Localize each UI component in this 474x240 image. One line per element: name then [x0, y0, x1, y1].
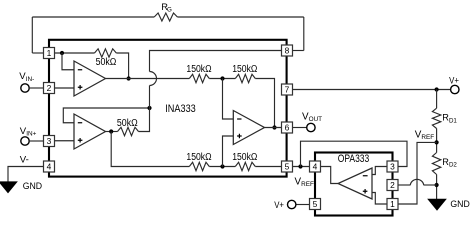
- terminal VIN-: [21, 84, 29, 92]
- node A3 minus junction: [220, 76, 224, 80]
- resistor RD1: [432, 108, 440, 128]
- wire RG loop right vertical: [303, 17, 305, 51]
- wire OPA pin2 to gnd-a: [398, 184, 411, 186]
- svg-text:RD2: RD2: [442, 157, 457, 169]
- svg-text:INA333: INA333: [165, 103, 196, 115]
- pin 3 INA333: [44, 136, 55, 147]
- svg-text:50kΩ: 50kΩ: [117, 118, 138, 129]
- resistor RD2: [432, 153, 440, 175]
- wire top row mid: [209, 78, 235, 80]
- svg-text:3: 3: [390, 161, 395, 171]
- svg-text:7: 7: [285, 84, 290, 94]
- wire pin2 to A1 plus: [55, 87, 75, 89]
- wire bottom row mid: [209, 166, 235, 168]
- svg-text:RD1: RD1: [442, 113, 457, 125]
- wire pin8 internal: [150, 51, 282, 72]
- pin 2 INA333: [44, 83, 55, 94]
- svg-text:G: G: [167, 6, 172, 13]
- pin 6 INA333: [282, 122, 293, 133]
- resistor 150k bottom-2: [235, 162, 255, 170]
- wire 50k A1 to output: [116, 53, 128, 79]
- op-amp A1: [74, 61, 106, 96]
- svg-text:50kΩ: 50kΩ: [96, 57, 117, 68]
- wire RD2 to gnd node: [436, 175, 438, 200]
- terminal VOUT: [307, 123, 315, 131]
- svg-text:VIN+: VIN+: [20, 126, 37, 138]
- svg-text:3: 3: [47, 136, 52, 146]
- wire pin8 lead: [293, 50, 304, 52]
- node V+ rail tap: [435, 87, 439, 91]
- wire top feedback corner: [255, 79, 274, 128]
- wire OPA pin1 internal: [372, 193, 387, 205]
- INA333 package outline: [49, 40, 287, 177]
- wire OPA pin1 to divider: [398, 142, 437, 204]
- svg-text:V+: V+: [274, 200, 284, 211]
- wire hop over A1 row: [150, 72, 157, 86]
- wire pin5 to OPA out: [293, 166, 310, 168]
- svg-text:4: 4: [313, 161, 318, 171]
- svg-text:150kΩ: 150kΩ: [186, 64, 211, 75]
- pin 7 INA333: [282, 84, 293, 95]
- wire hop over pin1 wire: [410, 179, 424, 185]
- pin 4 INA333: [44, 161, 55, 172]
- svg-text:V+: V+: [449, 76, 459, 87]
- node A1 minus junction: [60, 51, 64, 55]
- pin 2 OPA333: [387, 180, 398, 191]
- wire RD1 to node: [436, 129, 438, 153]
- node A1 output: [127, 76, 131, 80]
- svg-text:150kΩ: 150kΩ: [232, 152, 257, 163]
- pin 3 OPA333: [387, 161, 398, 172]
- svg-text:150kΩ: 150kΩ: [186, 152, 211, 163]
- wire RG loop left vertical: [31, 17, 33, 53]
- resistor 150k top-1: [189, 74, 209, 82]
- wire A1 output row: [106, 78, 190, 80]
- op-amp A3: [233, 111, 264, 145]
- wire OPA pin2 to gnd-b: [424, 184, 437, 186]
- terminal V+: [451, 85, 459, 93]
- resistor RG: [154, 13, 177, 21]
- svg-text:VIN-: VIN-: [19, 71, 34, 83]
- pin 4 OPA333: [310, 161, 321, 172]
- terminal VIN+: [21, 137, 29, 145]
- ground right: [428, 199, 446, 210]
- wire A2 minus loop: [63, 108, 149, 123]
- svg-text:2: 2: [390, 180, 395, 190]
- svg-text:VREF: VREF: [295, 176, 314, 188]
- resistor 50k A2: [118, 127, 139, 135]
- pin 8 INA333: [282, 45, 293, 56]
- pin 1 INA333: [44, 48, 55, 59]
- svg-text:150kΩ: 150kΩ: [232, 64, 257, 75]
- wire OPA pin4 to tip: [321, 167, 339, 184]
- svg-text:4: 4: [47, 161, 52, 171]
- wire VIN- to pin2: [29, 87, 43, 89]
- resistor 150k bottom-1: [189, 162, 209, 170]
- wire A3 plus branch: [223, 136, 234, 167]
- wire RG left segment: [32, 16, 154, 18]
- node A3 plus junction: [220, 164, 224, 168]
- wire bottom row to pin5: [255, 166, 281, 168]
- node A3 output: [272, 125, 276, 129]
- wire pin4 to ground: [8, 167, 44, 182]
- pin 5 OPA333: [310, 199, 321, 210]
- svg-text:GND: GND: [450, 199, 469, 210]
- wire pin1 lead: [32, 52, 43, 54]
- wire VIN+ to pin3: [29, 140, 43, 142]
- svg-text:1: 1: [390, 199, 395, 209]
- wire pin6 to VOUT: [293, 127, 307, 129]
- svg-text:GND: GND: [23, 181, 42, 192]
- wire A3 minus branch: [223, 79, 234, 120]
- svg-text:6: 6: [285, 122, 290, 132]
- pin 5 INA333: [282, 161, 293, 172]
- wire OPA pin5 to V+: [296, 204, 310, 206]
- svg-text:V-: V-: [20, 155, 29, 166]
- wire A2 output down: [111, 132, 189, 167]
- svg-text:OPA333: OPA333: [338, 153, 370, 165]
- op-amp U2 OPA333: [338, 168, 372, 199]
- ground left: [0, 182, 17, 193]
- svg-text:1: 1: [47, 48, 52, 58]
- wire A2 output: [106, 131, 118, 133]
- pin 1 OPA333: [387, 199, 398, 210]
- wire pin1 to node: [55, 52, 95, 54]
- wire pin3 to A2 plus: [55, 140, 75, 142]
- node GND rail: [435, 183, 439, 187]
- resistor 50k A1: [95, 49, 117, 57]
- wire OPA pin3 internal: [372, 167, 387, 175]
- svg-text:VREF: VREF: [415, 129, 434, 141]
- wire A3 output: [265, 127, 282, 129]
- wire pin7 to V+: [293, 89, 451, 91]
- wire OPA feedback loop: [301, 141, 408, 166]
- OPA333 package outline: [315, 153, 393, 216]
- wire A1 minus input: [62, 53, 74, 70]
- terminal V+ OPA: [288, 200, 296, 208]
- wire RG node vertical: [139, 86, 150, 132]
- svg-text:5: 5: [285, 161, 290, 171]
- op-amp A2: [74, 114, 106, 149]
- svg-text:5: 5: [313, 199, 318, 209]
- node A2 minus junction: [147, 106, 151, 110]
- node VREF output: [298, 164, 302, 168]
- svg-text:2: 2: [47, 83, 52, 93]
- node A2 output: [109, 129, 113, 133]
- wire V+ to RD1: [436, 90, 438, 109]
- svg-text:VOUT: VOUT: [302, 112, 322, 124]
- resistor 150k top-2: [235, 74, 255, 82]
- svg-text:8: 8: [285, 45, 290, 55]
- wire RG right segment: [177, 16, 303, 18]
- node VREF divider: [435, 140, 439, 144]
